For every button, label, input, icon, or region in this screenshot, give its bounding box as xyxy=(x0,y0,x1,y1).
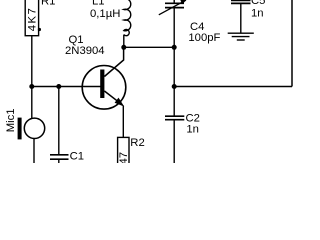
svg-text:C5: C5 xyxy=(251,0,265,7)
microphone Mic1 bottom lead xyxy=(33,138,35,163)
capacitor C2 bottom lead xyxy=(173,120,175,163)
variable capacitor C4 plate 1 xyxy=(165,2,184,4)
variable capacitor C4 top lead xyxy=(173,0,175,3)
svg-text:4K7: 4K7 xyxy=(27,7,39,32)
svg-text:Mic1: Mic1 xyxy=(5,108,17,132)
transistor Q1 emitter lead xyxy=(104,91,121,104)
capacitor C5 plate 2 xyxy=(231,2,251,4)
capacitor C2 plate 2 xyxy=(165,119,184,121)
capacitor C2 plate 1 xyxy=(165,115,184,117)
wire C4 node down to output node xyxy=(173,47,175,86)
svg-text:L1: L1 xyxy=(92,0,105,7)
node collector junction xyxy=(121,45,126,50)
resistor R1 xyxy=(25,0,38,36)
svg-text:100pF: 100pF xyxy=(188,32,220,44)
svg-text:Q1: Q1 xyxy=(69,34,84,46)
variable capacitor C4 plate 2 xyxy=(165,7,184,9)
capacitor C5 bottom lead xyxy=(240,4,242,33)
capacitor C5 plate 1 xyxy=(231,0,251,1)
wire emitter to R2 xyxy=(122,106,124,138)
capacitor C1 bottom lead xyxy=(58,160,60,163)
transistor Q1 emitter arrow xyxy=(115,98,125,107)
transistor Q1 collector lead xyxy=(104,47,123,76)
capacitor C1 plate 2 xyxy=(50,158,69,160)
svg-text:C1: C1 xyxy=(70,151,84,163)
wire base bus xyxy=(32,86,102,88)
wire right vertical riser xyxy=(291,0,293,87)
node output junction xyxy=(172,84,177,89)
variable capacitor C4 bottom lead xyxy=(173,8,175,47)
svg-text:R1: R1 xyxy=(41,0,55,8)
microphone Mic1 diaphragm bar xyxy=(18,118,22,140)
svg-text:47: 47 xyxy=(118,152,130,163)
node C4 junction xyxy=(172,45,177,50)
microphone Mic1 body xyxy=(24,118,44,138)
node R1 pin dot xyxy=(38,28,41,31)
capacitor C1 plate 1 xyxy=(50,154,69,156)
svg-text:R2: R2 xyxy=(130,137,144,149)
ground xyxy=(228,32,254,34)
transistor Q1 base bar xyxy=(100,70,104,99)
svg-text:2N3904: 2N3904 xyxy=(65,45,105,57)
inductor L1 coil xyxy=(124,0,131,36)
svg-text:1n: 1n xyxy=(186,124,199,136)
wire C1 top lead xyxy=(58,87,60,155)
inductor L1 bottom lead xyxy=(123,35,125,48)
node C1 junction xyxy=(56,84,61,89)
wire mic top lead xyxy=(31,87,33,119)
transistor Q1 body xyxy=(82,66,126,110)
wire collector node to C4 node xyxy=(124,46,174,48)
variable capacitor C4 arrow xyxy=(159,0,186,15)
resistor R2 xyxy=(118,137,129,171)
svg-text:0,1µH: 0,1µH xyxy=(90,8,120,20)
node bus-left junction xyxy=(29,84,34,89)
svg-text:1n: 1n xyxy=(251,7,264,19)
wire R1 bottom to bus xyxy=(31,36,33,87)
wire output node to right edge xyxy=(174,86,292,88)
wire C2 top lead xyxy=(173,87,175,116)
